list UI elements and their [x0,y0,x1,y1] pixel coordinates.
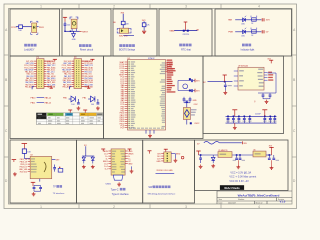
header P2 body [74,59,82,89]
svg-text:GND: GND [128,164,133,166]
mcu U1 left pin 26 wire and label [125,114,128,116]
capacitor C11 decoupling [238,116,240,118]
header P1 pin row 8 right [44,75,46,77]
mcu U1 left pin 13 wire and label [125,86,128,88]
wire reset node [65,30,80,32]
wire R2 to BOOT0 node [122,25,124,29]
type-c pin row 4 left [108,158,111,160]
capacitor C12 decoupling [243,116,245,118]
svg-text:Number: Number [238,199,245,201]
ground tvs D3 [83,165,85,167]
capacitor C10 value [232,121,236,122]
capacitor group osc 2 [189,90,191,92]
svg-text:VCC = 3.3V @1.3A: VCC = 3.3V @1.3A [230,171,251,174]
svg-text:GND: GND [193,100,198,102]
wire mcu to osc bus [178,80,186,82]
flash U3 pins left [234,70,238,72]
svg-text:STM32: STM32 [148,58,155,60]
header P2 pin row 8 left [72,75,74,77]
label reset circuit chinese [79,44,82,47]
ground mcu bottom [149,134,151,136]
ground caps mid [237,160,239,165]
header P2 pin row 2 right [82,62,84,64]
mcu right side red pin labels [167,60,173,61]
mcu U1 left pin 30 wire and label [125,122,128,124]
mcu U1 left pin 31 wire and label [125,125,128,127]
mcu U1 left pin 6 wire and label [125,72,128,74]
sheet inner border frame [9,9,293,205]
svg-text:104: 104 [67,25,70,27]
svg-text:GND: GND [72,39,77,41]
section box Type-C interface [77,140,143,203]
section box SPI flash and decoupling [203,56,284,134]
power flag flash left [223,74,227,76]
svg-text:3V3: 3V3 [196,81,199,83]
capacitor C21 out [273,155,275,158]
usb type-c connector J1 body [111,149,125,175]
power flag swd left [148,150,152,152]
svg-text:3V3 DIO CLK GND: 3V3 DIO CLK GND [156,170,173,172]
svg-text:4: 4 [258,5,260,9]
svg-text:2: 2 [113,205,115,209]
capacitor group osc 1 [189,78,191,80]
header P1 power flag [44,60,53,62]
termination red bars row2 [261,30,263,33]
header P1 pin row 12 left [34,84,36,86]
header P2 pin row 9 right [82,77,84,79]
wire 3V3 to R2 [122,14,124,21]
header P2 pin row 10 left [72,79,74,81]
mcu U1 left pin 14 wire and label [125,89,128,91]
flash U3 internal text right [258,69,263,70]
mcu U1 left pin 1 wire and label [125,61,128,63]
mcu U1 internal right pin names [162,62,165,63]
title block outline [217,190,292,192]
mcu U1 right pin 3 wire and label [166,66,169,68]
component S1 top pins [31,21,33,23]
type-c pin row 1 right [125,150,128,152]
type-c pin row 1 left [108,150,111,152]
pin function table cell text [38,117,41,118]
capacitor C14 value [263,121,267,122]
svg-text:Type-C interface: Type-C interface [112,193,130,196]
ferrite bead FB1 [58,169,63,173]
wire crystal Y1 top [186,101,188,108]
svg-text:VBAT: VBAT [169,30,175,33]
svg-text:PC13: PC13 [11,27,17,29]
power flag VCC reset [63,16,67,18]
TF pin row 6 [28,171,30,173]
fuse F1 wavy [204,142,220,145]
header P1 bottom power flag [44,86,51,88]
reset button pin marks [70,17,72,19]
wire power rail [199,154,219,156]
svg-text:100nF: 100nF [255,114,261,116]
header P1 pin row 7 right [44,73,46,75]
logo WeAct Studio black box [220,185,244,190]
svg-text:PC7: PC7 [121,128,125,130]
mcu U1 left pin 29 wire and label [125,120,128,122]
section box pin headers [10,56,104,139]
capacitor C13 value [248,121,252,122]
pin function table grid [36,115,103,117]
sheet outer border frame [4,4,297,209]
section box reset circuit [62,9,111,56]
mcu U1 left pin 9 wire and label [125,78,128,80]
header P1 pin row 7 left [34,73,36,75]
header P2 pin row 3 right [82,64,84,66]
svg-text:Reset circuit: Reset circuit [80,48,93,51]
capacitor C9 decoupling [227,116,229,118]
wire flash right down [275,73,277,93]
ground caps out [271,160,273,166]
header P1 pin row 1 left [34,60,36,62]
TF pin row 2 [28,161,30,163]
wire power top rail [219,142,241,144]
swd note blue line [156,173,175,175]
header P2 pin row 3 left [72,64,74,66]
header P1 pin row 6 right [44,71,46,73]
svg-text:2021/10/7: 2021/10/7 [228,202,236,204]
capacitor C15 value [269,121,273,122]
svg-text:CR1220: CR1220 [183,34,190,36]
svg-text:3V3: 3V3 [196,91,199,93]
key/led component S1 [32,23,37,33]
mcu U1 left pin 11 wire and label [125,82,128,84]
svg-text:3V3_VDD: 3V3_VDD [20,172,28,174]
mcu U1 left pin 17 wire and label [125,95,128,97]
svg-text:PA5_A: PA5_A [45,97,52,100]
capacitor C22 flash [224,82,226,85]
svg-text:RTC vbat: RTC vbat [181,48,191,51]
header P1 pin row 8 left [34,75,36,77]
svg-text:Date:: Date: [219,201,224,204]
net label power top right [241,141,243,144]
header P2 pin row 2 left [72,62,74,64]
header P1 pin row 9 right [44,77,46,79]
power flag osc 2 [194,89,196,93]
capacitor C12 TF [54,165,56,168]
type-c pin row 8 left [108,168,111,170]
svg-text:1: 1 [40,205,42,209]
power flag TF sub [31,181,36,183]
header P1 pin row 3 left [34,64,36,66]
header P1 pin row 2 left [34,62,36,64]
capacitor C10 decoupling [232,116,234,118]
header P2 pin row 9 left [72,77,74,79]
header P2 pin row 7 left [72,73,74,75]
mcu U1 left pin 10 wire and label [125,80,128,82]
decoupling bottom rail wire [226,122,277,124]
net label RST right [80,30,82,32]
wire PC13 to R1 [16,26,19,28]
mcu U1 left pin 25 wire and label [125,112,128,114]
capacitor C16 decoupling [274,116,276,118]
type-c pin row 3 right [125,155,128,157]
TF pin row 3 [28,163,30,165]
power flag typec left [101,148,105,150]
mcu U1 right pin 5 wire and label [166,70,169,72]
diode led D3 [243,30,246,34]
svg-text:SW debug,download interface: SW debug,download interface [148,192,177,195]
wire flash bottom right rail [258,92,276,94]
capacitor C7 above Y1 [185,100,188,102]
header P2 pin row 4 right [82,66,84,68]
regulator U6 body [253,151,266,157]
section box BOOT0 settings [113,9,157,56]
header P1 pin row 10 left [34,79,36,81]
type-c pin row 7 left [108,165,111,167]
label RTC battery chinese [179,44,182,47]
svg-text:USB1: USB1 [106,183,112,185]
ground D5 [212,164,214,166]
cap values mid [233,160,236,161]
component S1 bottom pins [31,33,33,35]
diode led D2 [243,18,246,22]
resistor R5 indicator [252,18,257,21]
resistor R3 TF [22,149,26,154]
flash right net labels [268,72,272,73]
wire TF sub bottom [39,179,41,182]
wire boot bottom [124,35,135,37]
capacitor C24 flash br [269,93,271,95]
wire R1 to S1 [23,26,32,28]
power flag above table 1 [68,109,72,111]
header P2 pin row 6 right [82,71,84,73]
mcu U1 left pin 22 wire and label [125,106,128,108]
svg-text:1: 1 [40,5,42,9]
header P1 pin row 2 right [44,62,46,64]
flash U3 pins right [264,71,268,73]
mcu bottom pin wires [145,130,147,134]
swd header P3 pin pads [167,153,168,154]
type-c pin row 3 left [108,155,111,157]
battery junction B2 [187,30,189,32]
capacitor C23 flash br [262,93,264,95]
wire S1 to net label [37,26,39,28]
header P1 pin row 12 right [44,84,46,86]
resistor R6 indicator [252,30,257,33]
section box indicator light [215,9,292,56]
capacitor C16 value [273,121,277,122]
header P2 pin row 12 left [72,84,74,86]
ground tvs D4 [92,165,94,167]
power flag typec right [128,148,132,150]
header P1 bottom wire [32,87,34,90]
type-c pin row 5 right [125,160,128,162]
wire indicator row1 [235,19,261,21]
ground TF left [14,172,16,174]
header P2 pin pads [75,60,78,63]
mcu U1 left pin 3 wire and label [125,65,128,67]
svg-text:U5 ME6211: U5 ME6211 [218,150,227,152]
mcu U1 right pin 4 wire and label [166,68,169,70]
header P1 pin row 11 left [34,81,36,83]
header P1 pin row 9 left [34,77,36,79]
ground led circuit 2 [97,106,99,108]
swd pin row 3 [161,158,164,160]
power flag swd top [164,148,168,150]
mcu U1 left pin 4 wire and label [125,67,128,69]
capacitor C17 power in [200,155,202,158]
mcu U1 left pin 15 wire and label [125,91,128,93]
header P2 pin row 1 right [82,60,84,62]
swd pin row 4 [161,160,164,162]
swd pin row 1 [161,153,164,155]
header P2 pin row 6 left [72,71,74,73]
header P2 pin row 12 right [82,84,84,86]
capacitor C5 reset [64,23,67,25]
regulator U6 inner text [255,153,261,154]
ground led circuit 1 [77,106,79,108]
wire flash left rail [208,81,233,83]
flash U3 internal text left [239,70,244,71]
power flag decoupling 1 [232,109,237,111]
tvs diode D3 [82,157,85,160]
capacitor led circuit 1 [77,99,79,102]
svg-text:V1.0: V1.0 [280,200,286,204]
header P1 pin row 5 left [34,69,36,71]
diode D5 power [211,157,215,160]
mcu U1 left pin 23 wire and label [125,108,128,110]
usb type-c connector J1 internal text [112,151,116,152]
header P1 pin row 13 left [34,86,36,88]
header P1 pin row 6 left [34,71,36,73]
svg-text:2: 2 [113,5,115,9]
svg-text:VCC -> 5.0V Max current: VCC -> 5.0V Max current [229,176,256,179]
pin function table [36,113,103,125]
diode D6 [91,96,95,102]
section box user key/led [10,9,60,56]
type-c pin row 2 left [108,153,111,155]
svg-text:U3 W25Q64: U3 W25Q64 [238,66,248,68]
header P2 pin row 8 right [82,75,84,77]
header P1 pin pads [38,60,41,63]
mcu U1 left pin 8 wire and label [125,76,128,78]
ground reset [73,31,75,33]
ground typec shell [118,182,120,184]
header P2 pin row 11 right [82,81,84,83]
header P1 pin row 4 right [44,66,46,68]
type-c pin row 6 right [125,163,128,165]
mcu U1 internal bottom row [129,128,132,129]
ground boot right [142,30,146,32]
wire typec vbus [85,146,87,156]
header P2 pin row 1 left [72,60,74,62]
svg-text:B: B [5,78,7,82]
ground flash bottom right [266,100,268,102]
header P2 pin row 11 left [72,81,74,83]
capacitor C12 value [243,121,247,122]
capacitor C22 value [228,85,232,86]
border zone ticks top [78,4,80,9]
label indicator chinese [242,44,245,47]
TF pin row 5 [28,168,30,170]
svg-text:Indicator light: Indicator light [241,48,255,51]
svg-text:OSC: OSC [194,104,199,106]
mcu U1 left pin 32 wire and label [125,127,128,129]
ground TF sub [33,192,35,194]
mcu U1 left pin 19 wire and label [125,99,128,101]
boot key SW2 [120,28,129,33]
header P1 pin row 4 left [34,66,36,68]
svg-text:PA6_A: PA6_A [45,101,52,104]
svg-text:SWD: SWD [176,154,181,156]
svg-text:D-2: D-2 [105,169,108,171]
crystal Y1 value text [191,109,197,110]
mcu U1 left pin 18 wire and label [125,97,128,99]
header P1 pin row 13 right [44,86,46,88]
mcu U1 right pin 1 wire and label [166,62,169,64]
border zone ticks bottom [78,204,80,209]
svg-text:Sheet of: Sheet of [256,201,263,204]
crystal Y1 hse [183,108,190,120]
regulator U5 body [218,152,232,158]
TF card holder U2 body [30,156,52,178]
wire indicator row2 [235,31,261,33]
mcu U1 internal pin name columns [128,61,130,62]
capacitor C14 decoupling [264,116,266,118]
svg-text:PB11: PB11 [39,27,45,29]
header P2 bottom wire [70,87,72,90]
mcu U1 left pin 24 wire and label [125,110,128,112]
ground C17 [200,165,202,167]
swd header P3 body [164,152,171,162]
swd pin row 2 [161,155,164,157]
header P2 pin row 7 right [82,73,84,75]
mcu U1 left pin 12 wire and label [125,84,128,86]
reset button SW1 [71,19,77,29]
decoupling top rail wire [226,115,277,117]
wire R3 to TF [23,153,25,158]
resistor R4 boot right [142,23,146,27]
power flag decoupling 2 [262,109,267,111]
section box MCU [104,56,204,139]
type-c pin row 5 left [108,160,111,162]
svg-text:3: 3 [185,205,187,209]
capacitor C15 decoupling [269,116,271,118]
svg-text:OSC2: OSC2 [194,123,199,125]
svg-text:VCC IN: 3.3V ~4V: VCC IN: 3.3V ~4V [229,180,249,183]
capacitor led circuit 2 [97,99,99,102]
header P2 pin row 13 left [72,86,74,88]
tvs diode D4 [91,157,94,160]
ground typec right [131,166,133,169]
header P1 body [37,59,45,89]
section box SW debug interface [143,140,195,203]
svg-text:B: B [293,78,295,82]
capacitor pair TF sub [33,186,36,188]
power flag osc 1 [194,79,196,83]
svg-text:GND: GND [156,161,161,163]
border zone ticks left right [4,54,9,56]
power flag VBAT [184,21,188,23]
mcu U1 left pin 21 wire and label [125,103,128,105]
svg-text:3: 3 [185,5,187,9]
resistor R1 [19,25,23,29]
header P1 pin row 1 right [44,60,46,62]
header P2 pin row 4 left [72,66,74,68]
mcu U1 left pin 16 wire and label [125,93,128,95]
flash U3 body [238,67,264,90]
mcu U1 left pin 5 wire and label [125,69,128,71]
no-connect mark swd [181,156,184,159]
capacitor C11 value [237,121,241,122]
wire swd right [171,153,175,155]
power flag 5V mid [196,150,200,152]
ground swd [174,158,176,160]
capacitor C20 out [269,154,271,156]
